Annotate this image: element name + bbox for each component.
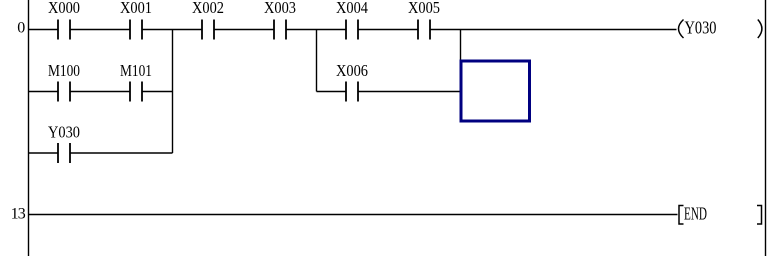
- svg-text:X003: X003: [264, 0, 296, 17]
- svg-text:Y030: Y030: [48, 123, 80, 142]
- svg-text:X001: X001: [120, 0, 152, 17]
- svg-text:X000: X000: [48, 0, 80, 17]
- svg-text:13: 13: [11, 206, 26, 223]
- svg-text:Y030: Y030: [685, 18, 717, 38]
- svg-text:X004: X004: [336, 0, 368, 17]
- svg-text:X005: X005: [408, 0, 440, 17]
- svg-text:X002: X002: [192, 0, 224, 17]
- svg-text:END: END: [684, 204, 707, 224]
- svg-text:M101: M101: [120, 61, 152, 80]
- svg-text:M100: M100: [48, 61, 80, 80]
- svg-text:0: 0: [17, 20, 25, 37]
- svg-text:X006: X006: [336, 61, 368, 80]
